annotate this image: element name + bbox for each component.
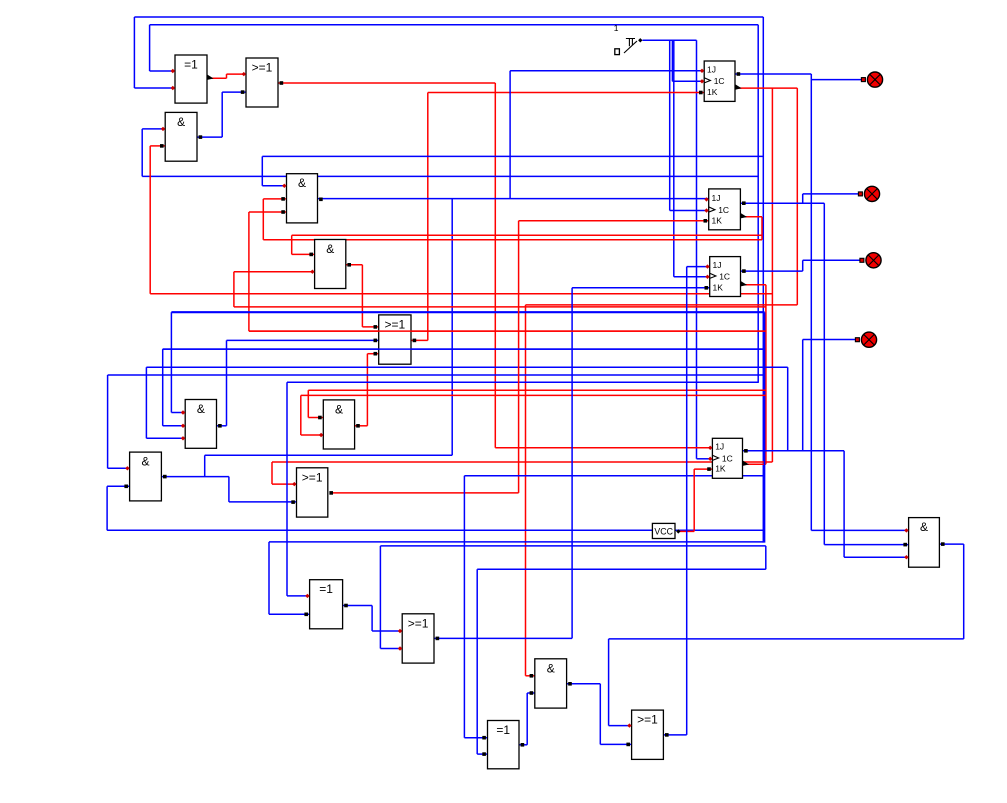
wire OR U2 output to JK4 J input bbox=[278, 83, 712, 448]
svg-text:1K: 1K bbox=[715, 464, 726, 474]
svg-text:&: & bbox=[920, 520, 928, 534]
wire OR U6 output to JK1 K input bbox=[411, 93, 704, 341]
AND gate U7 (&amp;) bbox=[181, 400, 222, 449]
wire XOR U11 output to OR U12 input A bbox=[343, 606, 403, 632]
svg-text:&: & bbox=[326, 242, 334, 256]
JK flip-flop FF1 bbox=[699, 61, 742, 101]
wire net row y390 to AND U8 input A bbox=[308, 390, 766, 417]
wire net row y375 to AND U9 input A bbox=[108, 375, 764, 468]
OR gate U15 (>=1) bbox=[626, 710, 668, 759]
XOR gate U11 (=1) bbox=[304, 580, 347, 629]
wire net row y156 to AND U4 input A bbox=[262, 156, 763, 185]
OR gate U6 (>=1) bbox=[374, 315, 417, 364]
svg-text:>=1: >=1 bbox=[252, 61, 273, 75]
switch S1 (clock input) bbox=[614, 23, 643, 55]
wire JK1 Q to LED1 and AND U16 input A bbox=[735, 74, 909, 530]
svg-text:1: 1 bbox=[614, 23, 619, 33]
OR gate U10 (>=1) bbox=[291, 468, 333, 517]
wire row y349 crossing over OR U6 bbox=[163, 348, 764, 350]
wire OR U15 output to JK3 J input bbox=[663, 267, 709, 735]
wire net to XOR U1 input B bbox=[134, 17, 763, 543]
AND gate U16 (&amp;) bbox=[903, 518, 944, 568]
wire AND U8 output to OR U6 input C bbox=[355, 354, 379, 426]
wire XOR U14 output to AND U13 input B bbox=[519, 693, 535, 745]
LED D4 bbox=[855, 332, 876, 347]
svg-text:1C: 1C bbox=[714, 76, 725, 86]
LED D3 bbox=[860, 253, 881, 268]
wire net row y382 to XOR U11 input A bbox=[287, 382, 758, 596]
wire XOR U1 output to OR U2 input A bbox=[207, 74, 246, 78]
AND gate U3 (&amp;) bbox=[160, 112, 202, 161]
AND gate U4 (&amp;) bbox=[281, 174, 322, 223]
svg-text:=1: =1 bbox=[319, 582, 333, 596]
wire net to XOR U1 input A bbox=[150, 25, 759, 383]
wire VCC to JK4 K input bbox=[679, 469, 713, 531]
svg-text:1K: 1K bbox=[707, 87, 718, 97]
wire JK2 Qbar to AND U5 input A and AND U4 input B bbox=[263, 199, 762, 255]
wire AND U5 output to OR U6 input A bbox=[346, 265, 379, 327]
wire row y569 to XOR U14 input B bbox=[477, 569, 766, 754]
wire net row y312 to AND U7 input A bbox=[171, 312, 764, 542]
svg-text:&: & bbox=[197, 402, 205, 416]
wire JK4 Q row y367 to AND U7 input C bbox=[146, 367, 787, 451]
XOR gate U14 (=1) bbox=[482, 721, 524, 769]
wire net row y395 to AND U8 input B bbox=[301, 395, 766, 435]
svg-text:1J: 1J bbox=[715, 441, 724, 451]
XOR gate U1 (=1) bbox=[171, 55, 214, 103]
wire row y331 crossing over OR U6 bbox=[249, 330, 766, 332]
OR gate U2 (>=1) bbox=[241, 58, 283, 107]
wire net row y542 to XOR U11 input B bbox=[269, 542, 763, 614]
wire net row y546 to OR U12 input B bbox=[380, 546, 765, 649]
svg-text:1C: 1C bbox=[718, 205, 729, 215]
svg-text:>=1: >=1 bbox=[302, 470, 323, 484]
wire JK4 Q to LED4 and AND U16 input C bbox=[743, 340, 909, 558]
svg-text:VCC: VCC bbox=[654, 526, 673, 536]
svg-text:&: & bbox=[335, 402, 343, 416]
wire AND U3 output to OR U2 input B bbox=[197, 92, 246, 137]
AND gate U13 (&amp;) bbox=[530, 659, 572, 708]
svg-text:1K: 1K bbox=[712, 215, 723, 225]
wire AND U7 output to OR U6 input B bbox=[217, 340, 379, 425]
svg-text:>=1: >=1 bbox=[384, 317, 405, 331]
LED D1 bbox=[861, 72, 882, 87]
wire net row y476 to XOR U14 input A bbox=[464, 476, 764, 738]
wire net CLK from switch S1 to JK clocks bbox=[643, 40, 713, 459]
svg-text:&: & bbox=[298, 176, 306, 190]
JK flip-flop FF2 bbox=[704, 189, 748, 230]
svg-text:1C: 1C bbox=[719, 271, 730, 281]
wire AND U4 output to JK1 J and JK2 J bbox=[205, 71, 709, 477]
OR gate U12 (>=1) bbox=[398, 614, 439, 663]
wire JK3 Q to LED3 bbox=[741, 260, 860, 271]
wire JK3 Qbar JK4 Qbar to AND U4 input C and AND U5 input B bbox=[234, 212, 766, 464]
svg-text:=1: =1 bbox=[184, 58, 198, 72]
wire OR U12 output to JK3 K input bbox=[434, 288, 710, 639]
JK flip-flop FF4 bbox=[707, 438, 749, 478]
svg-text:1J: 1J bbox=[712, 193, 721, 203]
wire AND U9 output to OR U10 input B bbox=[161, 477, 296, 502]
wire net AND U3 input B long red row y294 bbox=[150, 146, 772, 294]
LED D2 bbox=[858, 186, 879, 201]
svg-text:&: & bbox=[141, 455, 149, 469]
AND gate U9 (&amp;) bbox=[124, 452, 166, 501]
wire net row y530 AND U9 input B bbox=[107, 486, 763, 530]
power VCC source bbox=[652, 523, 680, 538]
AND gate U5 (&amp;) bbox=[309, 240, 351, 289]
wire AND U13 output to OR U15 input B bbox=[567, 684, 632, 745]
svg-text:>=1: >=1 bbox=[637, 713, 658, 727]
svg-text:1J: 1J bbox=[707, 64, 716, 74]
svg-text:>=1: >=1 bbox=[408, 616, 429, 630]
wire AND U16 output to OR U15 input A bbox=[609, 544, 964, 726]
wire OR U10 output to JK2 K input bbox=[332, 221, 709, 493]
JK flip-flop FF3 bbox=[705, 257, 748, 297]
svg-text:=1: =1 bbox=[496, 723, 510, 737]
svg-text:&: & bbox=[547, 661, 555, 675]
wire JK1 Qbar to OR U10 input A and AND U13 input A bbox=[272, 88, 797, 676]
wire JK2 Q to LED2 and AND U16 input B bbox=[740, 194, 908, 545]
AND gate U8 (&amp;) bbox=[318, 400, 360, 449]
svg-text:1J: 1J bbox=[713, 260, 722, 270]
svg-text:&: & bbox=[177, 115, 185, 129]
wire net row y176 to AND U3 input A bbox=[142, 129, 758, 177]
wire net row y349 to AND U7 input B bbox=[163, 349, 764, 426]
svg-text:1K: 1K bbox=[713, 282, 724, 292]
svg-text:1C: 1C bbox=[722, 453, 733, 463]
